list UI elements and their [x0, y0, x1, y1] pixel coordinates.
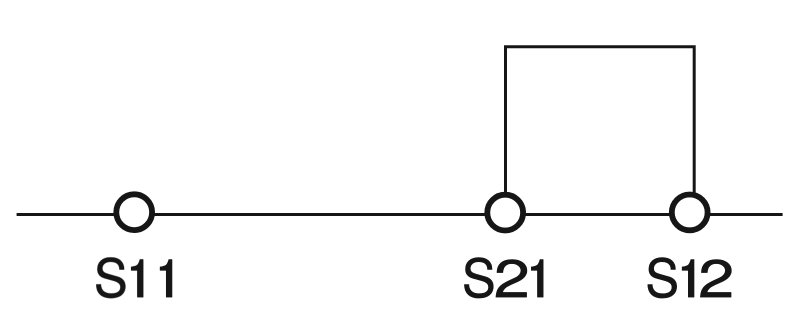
label S12 [648, 258, 731, 299]
node S11 circle [116, 194, 152, 230]
loop bracket wire connecting S21 and S12 from above [506, 47, 695, 205]
label S21 [464, 258, 543, 299]
wire: main horizontal line [17, 213, 783, 216]
label S11 [96, 258, 172, 299]
node S12 circle [672, 195, 708, 231]
node S21 circle [487, 195, 523, 231]
